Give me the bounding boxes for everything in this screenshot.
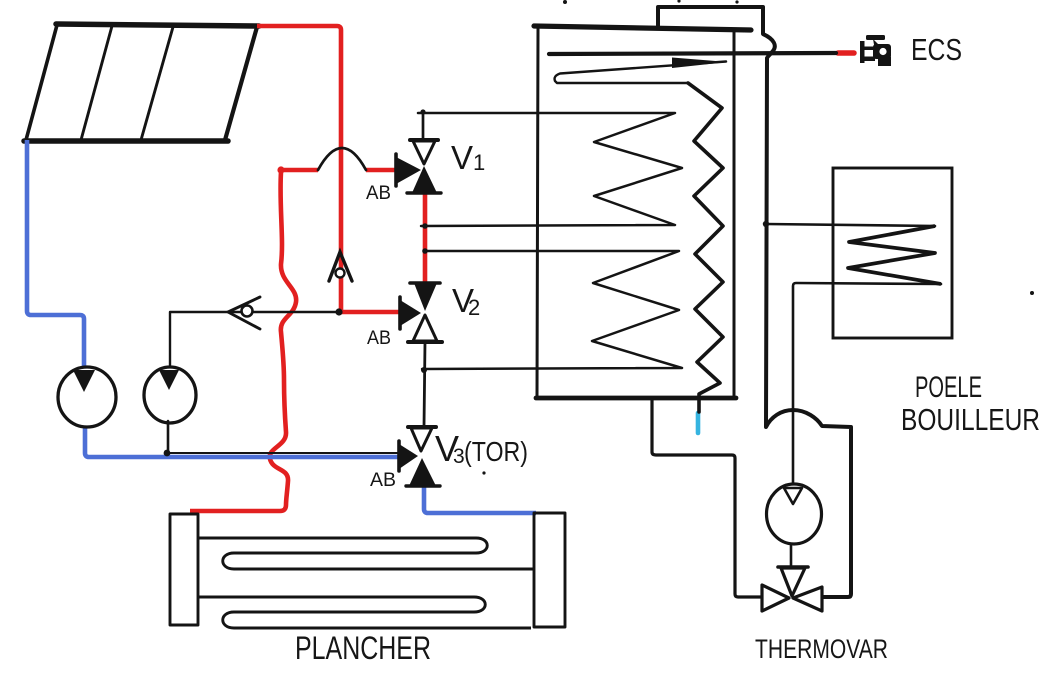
- svg-text:THERMOVAR: THERMOVAR: [755, 634, 888, 664]
- svg-text:2: 2: [468, 295, 480, 320]
- svg-text:3: 3: [453, 445, 465, 468]
- svg-text:1: 1: [473, 150, 485, 175]
- svg-text:AB: AB: [367, 328, 391, 349]
- svg-text:BOUILLEUR: BOUILLEUR: [901, 402, 1040, 437]
- svg-text:PLANCHER: PLANCHER: [295, 630, 431, 666]
- svg-text:ECS: ECS: [911, 32, 962, 67]
- svg-text:AB: AB: [370, 470, 396, 491]
- svg-text:POELE: POELE: [915, 371, 982, 404]
- svg-text:(TOR): (TOR): [464, 436, 528, 467]
- svg-text:AB: AB: [366, 183, 391, 204]
- svg-text:V: V: [451, 139, 473, 176]
